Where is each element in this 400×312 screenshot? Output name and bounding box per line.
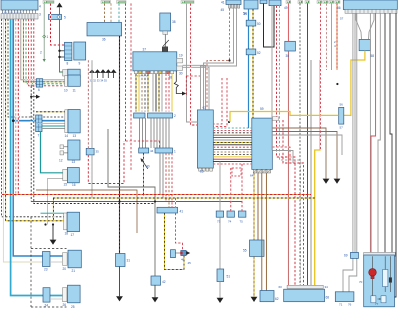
fuse F5 [49,15,62,20]
connector strip 8 [65,42,72,60]
wire link 44 to 43 [175,252,180,254]
trio connector row [216,211,223,217]
junction dot right [336,83,338,85]
connector bar 44 [139,148,149,153]
wire yellow-black below 44 [143,153,145,196]
svg-text:34: 34 [244,12,248,16]
wire gray cluster e [378,13,380,252]
arrow at sensor 43 [186,251,190,255]
svg-text:2 4 6 8 10 12: 2 4 6 8 10 12 [135,76,149,78]
black horizontal to grounds [31,201,242,203]
svg-text:31: 31 [127,259,131,263]
wire gray cluster a [354,13,356,252]
svg-text:41: 41 [180,210,184,214]
wire red-white W12 [29,19,65,86]
wire white-brown [110,3,112,22]
wire yellow-brown from 55 to ground G8 [253,256,255,296]
wire yellow-black into 14 [36,111,65,113]
cluster connector strip 57 [345,10,397,14]
svg-text:69: 69 [344,254,348,258]
wire red-white U lower [175,213,182,250]
wire teal W15 from connector 7 to 15 [41,132,63,173]
motor 25 [68,285,81,303]
svg-text:23: 23 [44,268,48,272]
wire gray cluster c to 69 [356,13,358,252]
svg-text:4: 4 [39,5,41,9]
wire black tap 1 [60,50,65,52]
wire green-white W11 [26,19,65,84]
sensor 43 [181,250,186,255]
connector 6 [36,79,42,87]
resistor unit 62 [260,291,274,302]
wires between bars [139,118,141,148]
wire gray from unit 41 top a [204,8,234,110]
ground G2 [50,240,57,245]
harness bundle between 63 and 64 [213,127,252,129]
wire teal end at 17 [41,212,64,214]
wire red-white above bar 41 [174,198,176,207]
svg-text:10: 10 [64,89,68,93]
wire gray pair to unit 63 [183,65,206,110]
wire black U loop [264,4,275,48]
inline connector 52 [246,49,256,55]
switch unit 71 [335,292,354,302]
wire red-white W14 upper [33,19,35,88]
inline connector 69 [351,252,359,258]
unit 64 (central right) [252,118,272,169]
svg-text:55: 55 [243,249,247,253]
wire to ground G3 from 64 [272,128,326,179]
dashed enclosure bottom-left [31,217,67,307]
inline connector 24 [43,288,50,302]
wire red-white L to bottom strip b [283,120,304,285]
inline unit 31 [116,254,126,267]
wire brown to 55 [257,173,259,240]
wire black full height [307,3,309,285]
ignition switch lever 40 [142,160,148,169]
wire brown pair to 62 [261,173,263,291]
wire gray under 21 [50,261,63,263]
aux box 30 right of 37 [177,66,183,70]
svg-text:42: 42 [162,280,166,284]
svg-text:1 3 5 7 9 11 13 15 17: 1 3 5 7 9 11 13 15 17 [2,12,23,14]
wires inside 77 [373,256,391,296]
wire red-brown from unit 41 top [207,8,230,110]
contact breaker symbol [163,40,169,46]
connector strip 15 [63,169,67,180]
wire gray from label to bundle [187,4,198,123]
wire to ground G4 from 64 [272,132,337,179]
net label X20 [181,1,194,4]
svg-text:5: 5 [64,16,66,20]
svg-text:74: 74 [228,220,232,224]
wire black-white W14 lower [34,88,155,204]
wire gray cluster b to 69 [352,13,354,252]
svg-text:17: 17 [71,233,75,237]
net label X11 [101,1,111,4]
wire brown-white [104,3,106,22]
svg-text:77: 77 [375,302,379,306]
unit 47 (top) [269,0,281,6]
svg-text:30: 30 [179,72,183,76]
svg-text:26: 26 [63,303,67,307]
inline connector 50 [246,20,256,26]
distributor unit 37 [133,52,177,71]
svg-text:2: 2 [174,114,176,118]
connector bar 1 [155,148,173,153]
svg-text:62: 62 [275,297,279,301]
svg-text:45: 45 [221,8,225,12]
wire yellow-black U lower [165,213,185,270]
svg-text:18: 18 [65,232,69,236]
svg-text:35: 35 [96,150,100,154]
wire gray into 14 [42,128,65,130]
sensor unit 36 [87,23,122,36]
svg-text:9: 9 [79,61,81,65]
ignition coil 38 [160,13,171,31]
svg-text:48: 48 [169,76,173,80]
red dashed enclosure center [126,141,160,148]
connector bar 41 [157,207,178,213]
wire red cluster to motor unit [371,13,376,252]
inline connector 66 [339,107,344,124]
unit 13b [68,140,80,160]
wire red from relay 30 to strip 34 [287,51,289,285]
wire from 42 to ground G6 [154,285,156,297]
connector bar 2 right [148,113,173,118]
connector strip 20 [63,253,68,266]
wire black-white W1 [2,19,64,217]
inline connector 35 [86,148,94,155]
wire teal into 14 [42,125,65,127]
wire orange-red dash [336,3,338,70]
relay 11 [68,75,80,86]
svg-text:7: 7 [38,134,40,138]
inline connector 44 [171,250,176,258]
wire gray through 69 to 71 b [349,258,357,291]
wire teal dashed [118,3,120,22]
terminal boxes inside 77 [371,296,376,303]
ECU 41 pins [229,5,231,9]
svg-text:62: 62 [203,106,207,110]
wire red-white pair mid [130,3,132,170]
wire brown nested corner [36,190,137,233]
ground points row 31-35 [89,69,95,73]
wire red-dash into trio c [241,164,243,211]
svg-text:3: 3 [39,13,41,17]
unit 53 (top small) [260,0,267,4]
svg-text:68: 68 [326,296,330,300]
wire white-red W7 [15,19,17,196]
net label X32 [305,1,309,4]
wire red-dash through 35 to enclosure [87,60,89,148]
svg-text:24: 24 [45,304,49,308]
ground G3 [323,179,330,184]
control unit A1 (top-left) [1,0,38,10]
svg-text:8: 8 [67,62,69,66]
wire black cluster b [390,13,392,252]
wire arrow stub [31,96,36,98]
wire black ground from bundle [52,225,54,240]
wire gray mid [310,60,312,285]
svg-text:60: 60 [279,285,283,289]
wire yellow from 66 left to unit 63 [230,112,339,123]
wire gray under 25 [50,298,63,300]
resistor block inside 77 [389,277,392,282]
svg-text:21: 21 [72,269,76,273]
wire gray through trio to 51 [219,162,221,211]
wire gray through 69 to 71 a [343,258,353,291]
wire red-white L to bottom strip a [277,6,296,286]
node diamond 1 [43,35,46,38]
control unit 68 bottom [284,289,325,302]
wire red-white W13 upper [30,19,32,86]
inline connector 23 [43,252,51,267]
relay box inside 77 [383,270,388,287]
wire green-yellow W10 [23,19,64,82]
wire yellow-black W3 [6,19,64,221]
long yellow-black dashed horizontal [53,197,315,199]
connector strip 10 [65,76,68,87]
relay 9 [74,42,86,60]
wire gray from 47 [271,6,273,150]
wire yellow into 14 [36,123,65,125]
wire red-white from top through fuse to connector 8 [50,4,52,20]
connector stub 12a [60,145,64,149]
svg-text:19: 19 [179,54,183,58]
gauge 58 [359,39,370,50]
motor M inside 77 [369,269,377,277]
svg-text:49: 49 [284,6,288,10]
heater motor unit 77 [364,255,395,307]
motor 21 [68,250,81,268]
svg-text:14: 14 [65,134,69,138]
wire right of 64 low a [272,147,290,160]
wire blue thick W6 to connector 14 [13,19,65,121]
wire gray-green from label down [43,4,45,60]
svg-text:2: 2 [40,51,42,55]
connector strip 34 bottom [287,285,323,288]
wire gray cluster to motor unit [369,13,371,252]
resistor squiggle + arrow [174,71,182,94]
svg-text:57: 57 [340,126,344,130]
wire pair to bar 41 [168,153,170,207]
svg-text:36: 36 [102,38,106,42]
wire gray funnel right to 58 [369,13,375,39]
heater motor unit 77 strip [364,252,396,256]
net label X12 [117,1,127,4]
inline unit 51 [217,269,224,282]
wire gray through 35 [91,60,93,198]
svg-text:13: 13 [72,160,76,164]
wire right of 64 low b [272,151,293,164]
wire dark from 31 to ground G5 [119,267,121,297]
wire red dashed drop to bundle a [213,78,222,124]
svg-text:51: 51 [227,275,231,279]
wire black dashed full height [299,3,301,285]
wire blue thick W6 lower run [13,121,62,256]
svg-text:40: 40 [146,165,150,169]
svg-text:34: 34 [325,285,329,289]
long orange-red dashed horizontal [2,194,311,196]
svg-text:20: 20 [63,267,67,271]
wire dark dashed from 36 to lamp 31 [119,36,121,254]
relay 30 [285,41,296,51]
svg-text:13: 13 [73,134,77,138]
wire gray funnel left to 58 [356,13,362,39]
unit 18 [67,212,79,231]
connector 7 [36,115,42,132]
instrument cluster 56 (top right) [343,0,397,10]
contact block [162,47,168,52]
wire black cluster a [384,13,386,252]
connector X1 strip [1,14,38,20]
svg-text:71: 71 [339,303,343,307]
wire red to relay 30 [287,3,289,41]
svg-text:59: 59 [260,107,264,111]
svg-text:45: 45 [188,261,192,265]
svg-text:52: 52 [257,51,261,55]
svg-text:16: 16 [72,183,76,187]
svg-text:15: 15 [64,183,68,187]
connector boxes right of 64 [273,117,279,121]
net label X30 [286,1,291,4]
ground G6 [152,297,159,302]
net label X31 [298,1,303,4]
red dashed vertical harness edge [185,76,187,96]
wire gray top-right [331,3,333,70]
wire blue from 54 [248,9,250,128]
wire gray-dash L to bottom strip [280,6,301,286]
wire cream W2 [3,19,50,262]
ground G7 [217,298,224,303]
svg-text:44: 44 [150,149,154,153]
svg-text:76: 76 [348,303,352,307]
unit 54 (top) [244,0,258,9]
svg-text:58: 58 [371,54,375,58]
svg-text:37: 37 [143,48,147,52]
wire red-white from label to bundle [191,4,198,126]
svg-text:30: 30 [286,54,290,58]
ECU 41 (top) [226,0,241,5]
inline unit 42 [151,276,161,285]
wire gray-red dash [326,3,328,70]
unit 16 [67,168,79,183]
wire gray W9 [21,19,65,80]
wire red-white W8 [17,19,19,195]
wire coil to contact [164,34,166,46]
wire black tap 2 [60,56,65,58]
connector bar 2 left [134,113,145,118]
connector strip 26 [63,288,67,302]
wires 37 pins down to bars [135,74,137,112]
red dashed small enclosure below 63 [232,168,241,176]
svg-text:1: 1 [47,35,49,39]
wire green from G1 to fuse [59,7,61,14]
wire gray nested corner to 42 [108,129,155,276]
wire black right edge [395,13,397,297]
relay 55 [250,240,265,256]
svg-text:75: 75 [240,220,244,224]
wire brown-yellow to 55 [253,173,255,240]
wires bar1 down [159,153,161,195]
svg-text:1: 1 [174,150,176,154]
unit 63 bottom pins [199,168,202,171]
unit 13 [68,110,80,133]
wire red-white long [125,3,127,141]
connector strip 17 [64,213,67,230]
wire yellow from 58 to 66 [344,51,365,116]
wire cyan thick W5 [11,19,63,296]
coil connector [163,31,168,34]
unit 64 bottom pins [253,169,257,173]
red-white harness from top-right labels [317,1,322,4]
wire black-white W13 lower [30,86,32,202]
svg-text:73: 73 [217,220,221,224]
svg-text:41: 41 [221,1,225,5]
ground G5 [116,296,123,301]
svg-text:64: 64 [250,174,254,178]
svg-text:38: 38 [172,20,176,24]
wire red-dash into trio b [230,168,232,211]
svg-text:50: 50 [257,22,261,26]
connector strip 14 [65,110,68,133]
connector X1 pin ticks [3,10,36,14]
unit 37 pin row [135,71,138,74]
wire green through fuse to relay 5 [60,20,68,73]
wire yellow-black drop to 17 [52,198,54,221]
svg-text:6: 6 [38,88,40,92]
connector stub 12b [60,151,64,155]
wire yellow-black from 54 [252,9,254,118]
wire gray from 51 to ground G7 [219,282,221,298]
wire red dashed drop to bundle b [213,78,227,127]
svg-text:12: 12 [59,159,63,163]
svg-text:46: 46 [181,258,185,262]
wire gray from unit 41 top b [201,8,237,110]
ground G8 [251,297,258,302]
svg-text:11: 11 [73,89,77,93]
net label X234 [43,1,54,4]
svg-text:70: 70 [359,280,363,284]
aux box 19 right of 37 [177,58,183,63]
svg-text:57: 57 [340,17,344,21]
wire yellow full height [315,60,320,285]
svg-text:56: 56 [340,103,344,107]
svg-text:56: 56 [337,6,341,10]
wire gray loop from 15 to 17 [48,179,63,225]
junction dot [44,223,46,225]
relay 5 connector [63,70,68,76]
unit 63 (central left) [197,110,213,168]
svg-text:25: 25 [71,305,75,309]
wire black-white W4 [8,19,65,117]
ground G4 [334,179,341,184]
ground up symbol G1 [57,3,63,8]
nested corner right of 64 [272,135,342,155]
svg-text:63: 63 [200,170,204,174]
relay 5 [68,69,80,77]
